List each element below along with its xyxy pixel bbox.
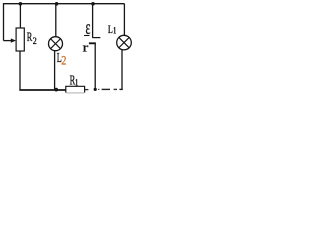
svg-text:ε: ε [86, 18, 91, 39]
junction dot top-left [19, 2, 23, 6]
svg-text:R: R [27, 30, 33, 44]
epsilon underline [84, 35, 90, 37]
rheostat R2 wiper arm [4, 40, 12, 42]
battery top lead [92, 4, 94, 38]
svg-text:2: 2 [33, 36, 37, 47]
resistor R1 box [66, 86, 85, 92]
lamp L2 top lead [55, 4, 57, 37]
junction dot bottom battery [94, 88, 97, 91]
lamp L2 [49, 37, 63, 51]
battery long plate [92, 37, 100, 39]
lamp L2 bottom lead [54, 51, 56, 89]
lamp L1 top lead [123, 4, 125, 36]
resistor R1 box bottom edge (faint) [66, 92, 84, 94]
wire top [4, 3, 125, 5]
svg-text:1: 1 [113, 27, 116, 37]
battery short plate [89, 42, 96, 44]
svg-text:1: 1 [75, 79, 78, 89]
rheostat R2 body [16, 28, 24, 51]
wire bottom right (broken/dashed) [98, 88, 99, 90]
lamp L1 [117, 35, 132, 50]
junction dot top battery [91, 2, 95, 6]
svg-text:L: L [108, 22, 113, 36]
battery bottom lead [94, 44, 96, 90]
wire bottom left [19, 89, 65, 91]
rheostat R2 wiper arrowhead [11, 38, 16, 42]
wire left [3, 3, 5, 41]
wire right lower [121, 50, 123, 90]
resistor R1 exit stub [85, 89, 89, 91]
svg-text:2: 2 [61, 54, 66, 68]
rheostat R2 bottom lead [19, 51, 21, 90]
junction dot bottom L2 [54, 88, 58, 92]
junction dot top L2 [55, 2, 59, 6]
rheostat R2 top lead [19, 4, 21, 28]
